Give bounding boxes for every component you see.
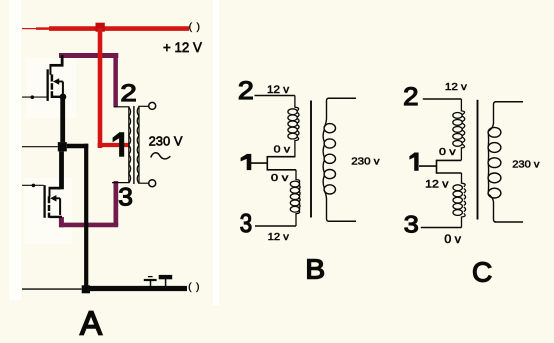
svg-text:3: 3: [240, 208, 252, 238]
svg-text:230 v: 230 v: [512, 159, 540, 171]
svg-text:(): (): [189, 21, 205, 33]
svg-text:12 v: 12 v: [425, 179, 449, 191]
svg-text:(): (): [188, 281, 204, 293]
svg-text:3: 3: [118, 184, 133, 212]
svg-text:0 v: 0 v: [274, 144, 291, 156]
svg-text:2: 2: [238, 77, 254, 105]
svg-text:3: 3: [404, 211, 419, 238]
svg-text:+ 12 V: + 12 V: [163, 39, 203, 55]
svg-text:B: B: [305, 254, 325, 285]
svg-text:12 v: 12 v: [445, 81, 468, 93]
svg-text:0 v: 0 v: [271, 172, 289, 184]
svg-text:C: C: [472, 256, 492, 287]
svg-text:12 v: 12 v: [267, 84, 290, 96]
svg-text:2: 2: [120, 80, 136, 107]
svg-text:0 v: 0 v: [444, 232, 461, 246]
svg-text:230 v: 230 v: [351, 156, 380, 168]
svg-text:0 v: 0 v: [439, 146, 456, 158]
svg-text:12 v: 12 v: [268, 231, 290, 243]
svg-text:2: 2: [403, 83, 418, 111]
svg-text:230 V: 230 V: [149, 133, 183, 148]
svg-text:A: A: [80, 305, 102, 342]
